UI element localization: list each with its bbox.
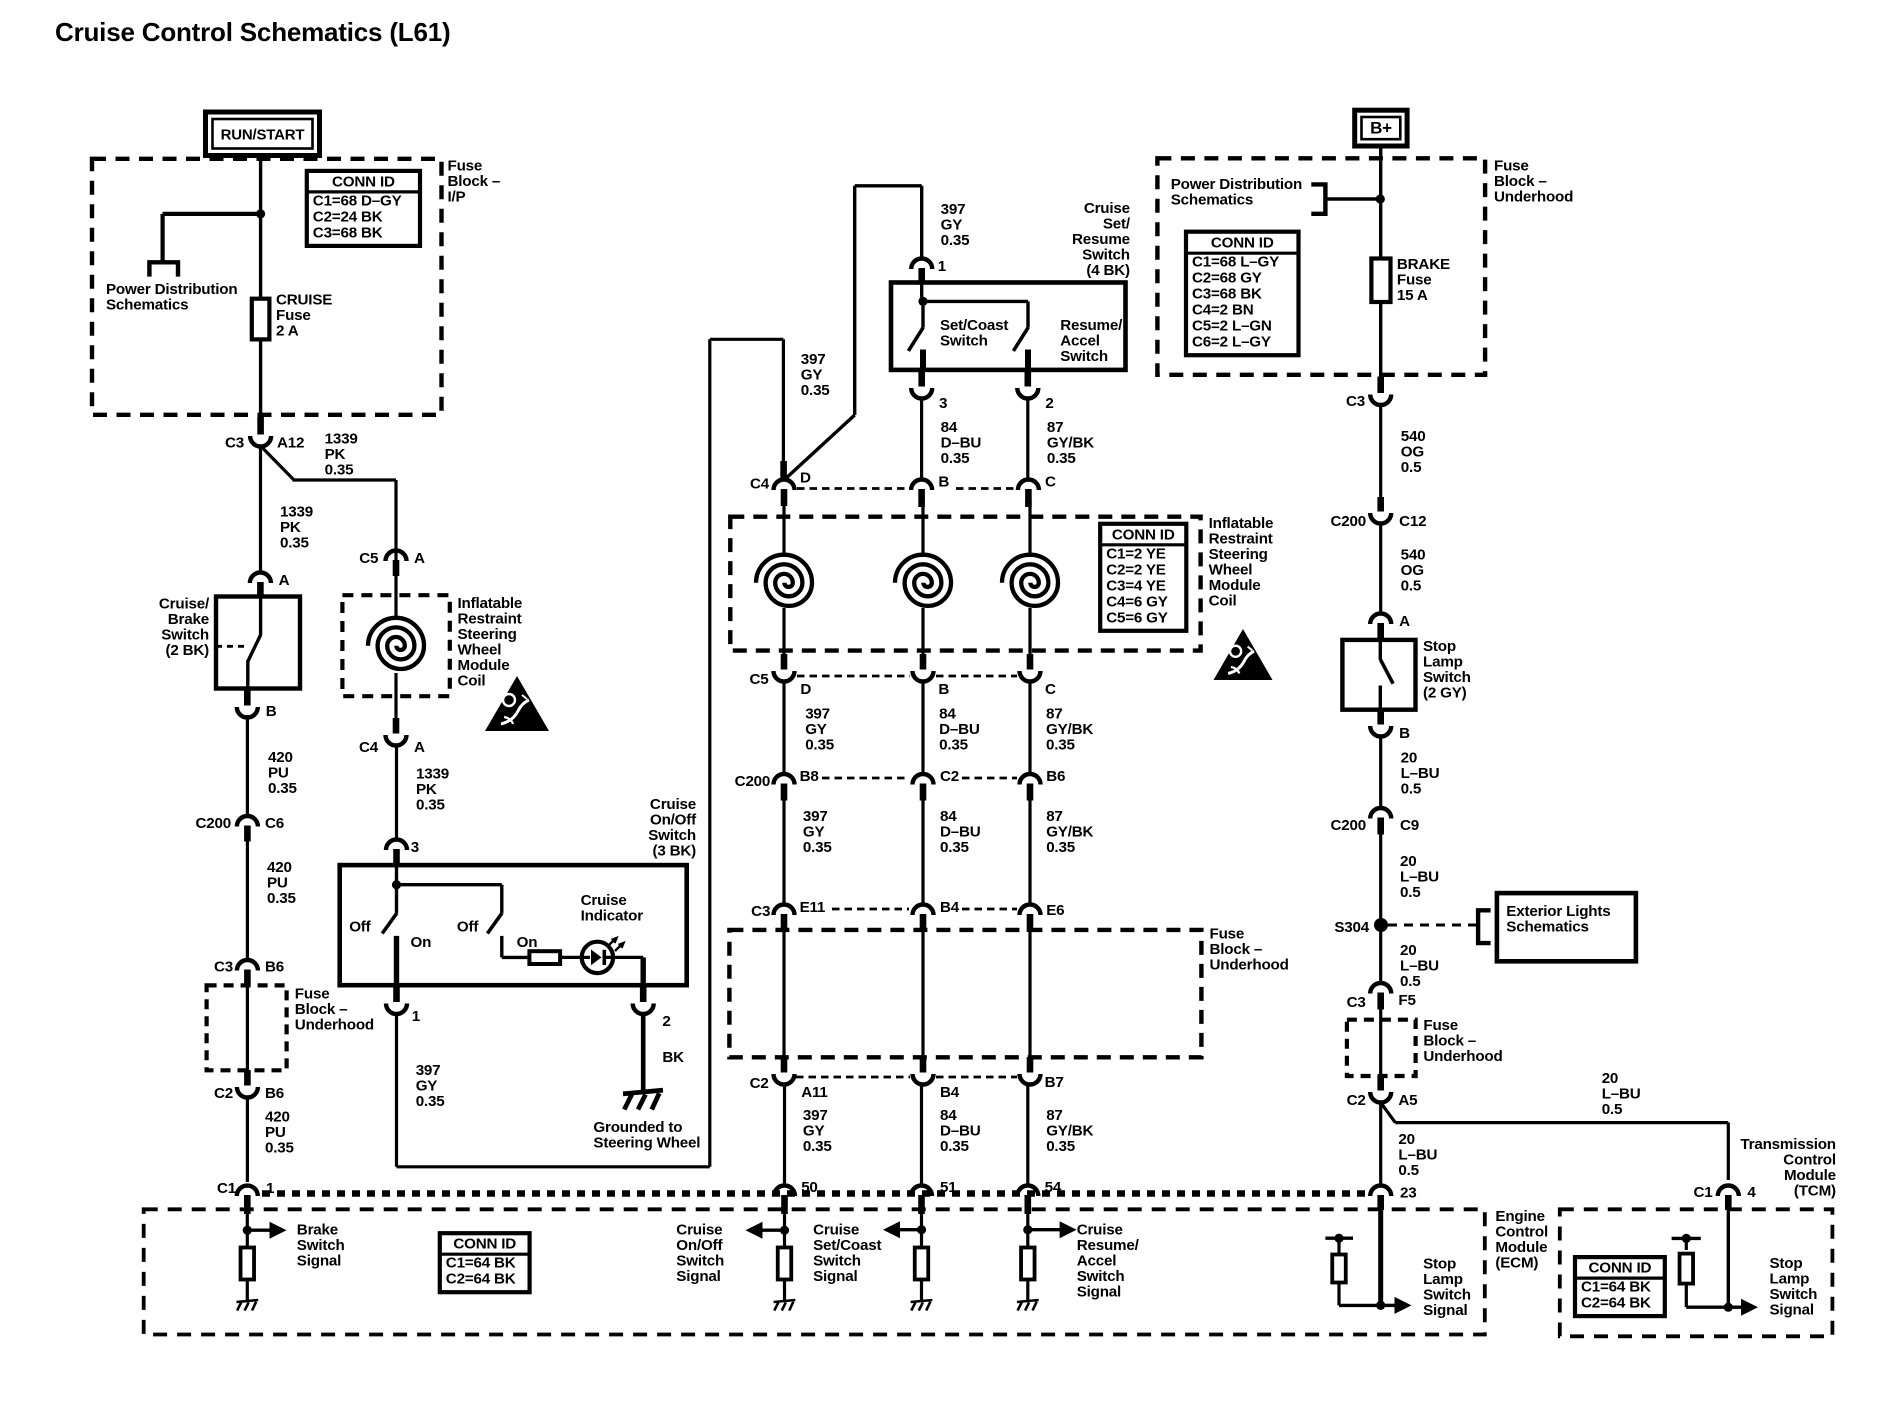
wire: C3 to C200/C12 540 OG (1379, 403, 1382, 505)
svg-text:C1=64 BK: C1=64 BK (446, 1255, 516, 1272)
svg-text:PK: PK (280, 519, 301, 536)
svg-text:Inflatable: Inflatable (458, 595, 523, 612)
connector pin 54 (1017, 1186, 1038, 1215)
svg-text:C5: C5 (359, 550, 379, 567)
svg-text:84: 84 (939, 706, 956, 723)
label C2 (C200 row) (940, 768, 959, 785)
svg-text:540: 540 (1401, 547, 1426, 564)
svg-text:Coil: Coil (458, 673, 486, 690)
svg-text:Resume/: Resume/ (1060, 317, 1123, 334)
svg-text:Module: Module (458, 657, 510, 674)
connector pin 1 (on/off out) (386, 987, 407, 1015)
svg-text:0.35: 0.35 (803, 1138, 833, 1155)
wire: coil3 to C5/C (1028, 608, 1031, 655)
label Exterior Lights Schematics (1506, 903, 1610, 936)
resistor (pin 54) (1021, 1248, 1035, 1280)
svg-text:0.35: 0.35 (416, 1093, 446, 1110)
svg-text:C2=68 GY: C2=68 GY (1192, 270, 1262, 287)
arrow cruise on/off signal (746, 1222, 785, 1239)
svg-text:C5: C5 (749, 671, 769, 688)
svg-text:3: 3 (411, 839, 419, 856)
wire: pin2 to C4/C 87 GY/BK (1026, 397, 1029, 480)
label 2 (on/off pin) (662, 1013, 670, 1030)
svg-text:397: 397 (416, 1062, 441, 1079)
svg-text:E11: E11 (800, 899, 826, 916)
svg-text:Cruise Control Schematics (L61: Cruise Control Schematics (L61) (55, 17, 450, 47)
svg-text:20: 20 (1398, 1131, 1415, 1148)
wire: resistor to ground (pin51) (920, 1280, 923, 1301)
svg-text:0.35: 0.35 (416, 797, 446, 814)
label 1 (C1 pin) (266, 1180, 275, 1197)
connector C1/1 (ECM brake input) (237, 1186, 258, 1214)
label Grounded to Steering Wheel (593, 1119, 700, 1152)
svg-text:Switch: Switch (813, 1253, 861, 1270)
svg-text:Wheel: Wheel (1209, 562, 1253, 579)
svg-text:GY: GY (801, 367, 823, 384)
wire: resistor to LED (560, 956, 590, 959)
fuse CRUISE 2A (252, 299, 270, 340)
svg-text:Accel: Accel (1060, 333, 1100, 350)
node: junction dot on B+ feed (1376, 194, 1385, 203)
fuse block underhood small dashed box (right) (1347, 1020, 1416, 1076)
label C3 (F5 row) (1347, 994, 1366, 1011)
svg-text:BK: BK (662, 1049, 684, 1066)
svg-text:1339: 1339 (416, 766, 449, 783)
svg-text:CONN ID: CONN ID (453, 1236, 516, 1253)
svg-text:Cruise: Cruise (1077, 1222, 1123, 1239)
arrow cruise resume/accel signal (1028, 1221, 1077, 1238)
svg-text:Steering: Steering (1209, 546, 1268, 563)
svg-text:Switch: Switch (648, 827, 696, 844)
pull-up bar (pin 23) (1325, 1234, 1353, 1255)
svg-text:B: B (938, 681, 949, 698)
svg-text:Resume/: Resume/ (1077, 1237, 1140, 1254)
connector C5/C (1020, 654, 1041, 682)
svg-text:(2 GY): (2 GY) (1423, 685, 1467, 702)
svg-text:On: On (411, 934, 432, 951)
svg-text:397: 397 (803, 808, 828, 825)
svg-text:B4: B4 (940, 1084, 960, 1101)
svg-text:C: C (1045, 681, 1056, 698)
connector pin 1 (set/coast) (911, 259, 932, 285)
label 420 PU 0.35 (upper) (268, 749, 298, 797)
label C5 (A branch) (359, 550, 379, 567)
svg-text:Off: Off (457, 919, 479, 936)
off-page reference bracket (exterior lights) (1478, 910, 1491, 943)
svg-text:0.35: 0.35 (941, 232, 971, 249)
label 540 OG 0.5 (upper) (1401, 428, 1426, 476)
svg-text:Signal: Signal (1077, 1284, 1121, 1301)
svg-text:C1: C1 (1693, 1184, 1713, 1201)
arrow brake switch signal (247, 1222, 286, 1239)
svg-text:54: 54 (1045, 1179, 1062, 1196)
svg-text:Lamp: Lamp (1770, 1271, 1810, 1288)
label B7 (1045, 1074, 1064, 1091)
svg-text:1: 1 (938, 258, 947, 275)
svg-text:Stop: Stop (1770, 1255, 1803, 1272)
off-page reference bracket (right) (1311, 184, 1380, 213)
svg-text:Switch: Switch (1077, 1268, 1125, 1285)
svg-text:B6: B6 (1046, 768, 1065, 785)
label On (pole1) (411, 934, 432, 951)
label A (stop lamp pin) (1399, 613, 1410, 630)
svg-text:A5: A5 (1398, 1092, 1418, 1109)
connector C2/A11 (774, 1057, 795, 1085)
svg-text:CONN ID: CONN ID (1211, 235, 1274, 252)
svg-text:Underhood: Underhood (1423, 1048, 1502, 1065)
off-page reference bracket (Power Distribution) (149, 262, 178, 276)
label B (brake switch pin) (266, 703, 277, 720)
svg-text:Resume: Resume (1072, 231, 1130, 248)
label A (C4 branch) (414, 739, 425, 756)
label B6 (C3 row) (265, 959, 284, 976)
svg-text:0.35: 0.35 (1046, 839, 1076, 856)
svg-text:51: 51 (940, 1179, 957, 1196)
svg-text:C12: C12 (1399, 513, 1426, 530)
svg-text:D–BU: D–BU (941, 435, 982, 452)
wire: pin 50 inside ECM (783, 1205, 786, 1248)
connector B (stop lamp out) (1370, 709, 1391, 737)
label F5 (1398, 992, 1416, 1009)
svg-text:OG: OG (1401, 444, 1424, 461)
wire: B to C200/C6 420 PU (246, 715, 249, 816)
svg-text:0.35: 0.35 (1046, 1138, 1076, 1155)
label Power Distribution Schematics (106, 281, 237, 314)
svg-text:Lamp: Lamp (1423, 1271, 1463, 1288)
svg-text:Lamp: Lamp (1423, 654, 1463, 671)
wire: C200/C2 to C3/B4 (921, 797, 924, 905)
label A11 (801, 1084, 828, 1101)
label 84 D-BU 0.35 (upper) (941, 419, 982, 467)
label C3 (E11 row) (751, 903, 770, 920)
wire: B4 to ECM pin 51 (920, 1083, 923, 1186)
wire: branch 20 L-BU to TCM (1381, 1103, 1728, 1180)
label C1 (TCM) (1693, 1184, 1713, 1201)
svg-text:E6: E6 (1046, 902, 1064, 919)
svg-text:C2=64 BK: C2=64 BK (446, 1271, 516, 1288)
svg-text:Module: Module (1209, 577, 1261, 594)
connector line C200 (dashed) (822, 777, 1017, 780)
svg-text:PU: PU (265, 1124, 286, 1141)
svg-text:C3: C3 (214, 959, 233, 976)
label C200 (C9 row) (1330, 817, 1366, 834)
svg-text:Switch: Switch (1423, 669, 1471, 686)
wire: E11 through underhood box (782, 928, 785, 1058)
svg-text:B7: B7 (1045, 1074, 1064, 1091)
coil 2 (84 D-BU) (895, 555, 951, 606)
connector C5/D (774, 654, 795, 682)
svg-text:Cruise: Cruise (676, 1222, 722, 1239)
svg-text:C2=24 BK: C2=24 BK (313, 208, 383, 225)
svg-text:15 A: 15 A (1397, 287, 1428, 304)
label 397 GY 0.35 (below on/off) (416, 1062, 446, 1110)
svg-text:0.5: 0.5 (1400, 884, 1421, 901)
svg-text:0.35: 0.35 (939, 737, 969, 754)
svg-text:0.35: 0.35 (940, 1138, 970, 1155)
label Cruise Set/Coast Switch Signal (813, 1222, 881, 1286)
inflatable restraint coil dashed box (left) (342, 595, 449, 696)
svg-text:0.35: 0.35 (1047, 450, 1077, 467)
svg-text:A: A (279, 572, 290, 589)
svg-text:(4 BK): (4 BK) (1086, 262, 1130, 279)
svg-text:CONN ID: CONN ID (1112, 526, 1175, 543)
svg-text:PK: PK (325, 446, 346, 463)
svg-text:0.35: 0.35 (267, 890, 297, 907)
label A12 (277, 435, 304, 452)
wire: C4/B into coil box (921, 500, 924, 557)
wire: through right underhood box (1379, 1006, 1382, 1076)
label B (C5 row) (938, 681, 949, 698)
label Off (pole1) (349, 919, 371, 936)
wire: pin 54 inside ECM (1026, 1205, 1029, 1248)
connector A (cruise brake switch) (250, 573, 271, 599)
connector line C3 (dashed) (832, 908, 1017, 911)
connector C2/B6 (237, 1070, 258, 1098)
svg-text:D–BU: D–BU (939, 721, 980, 738)
svg-text:PU: PU (267, 875, 288, 892)
svg-text:Fuse: Fuse (1494, 158, 1529, 175)
resistor (cruise indicator) (529, 951, 560, 964)
wire: resistor to output line (pin23) (1339, 1283, 1381, 1306)
svg-text:Brake: Brake (297, 1222, 338, 1239)
svg-text:0.5: 0.5 (1398, 1162, 1419, 1179)
label E6 (1046, 902, 1064, 919)
svg-text:D: D (800, 681, 811, 698)
svg-text:87: 87 (1046, 1107, 1063, 1124)
connector C200/C2 (913, 774, 934, 801)
svg-text:540: 540 (1401, 428, 1426, 445)
label 87 GY/BK 0.35 (mid) (1046, 808, 1093, 856)
svg-text:Indicator: Indicator (581, 908, 644, 925)
svg-text:C1=68 L–GY: C1=68 L–GY (1192, 254, 1279, 271)
wire: coil1 to C5/D (782, 608, 785, 655)
switch set/coast (908, 301, 923, 370)
arrow cruise set/coast signal (883, 1221, 922, 1238)
connector pin 3 (on/off switch) (386, 840, 407, 866)
wire: coil2 to C5/B (921, 608, 924, 655)
connector C3/E11 (774, 905, 795, 932)
connector C3 (right) (1370, 377, 1391, 406)
label C200 (B8 row) (735, 773, 771, 790)
connector C200/C6 (237, 816, 258, 842)
node: junction dot pin23 output (1376, 1301, 1385, 1310)
svg-text:Coil: Coil (1209, 593, 1237, 610)
label Inflatable Restraint Steering Wheel Module Coil (left) (458, 595, 523, 690)
connector C2/B4 (913, 1057, 934, 1085)
wire: C4/D into coil box (782, 504, 785, 557)
connector C4/C (1018, 480, 1039, 508)
svg-text:Underhood: Underhood (1210, 957, 1289, 974)
svg-text:C200: C200 (1330, 817, 1366, 834)
wire: C4/A to on/off pin3 1339 PK (395, 744, 398, 840)
connector C1/4 (TCM) (1718, 1186, 1739, 1211)
connector pin 23 (1370, 1186, 1391, 1211)
svg-text:I/P: I/P (448, 189, 466, 206)
svg-text:1: 1 (412, 1008, 421, 1025)
svg-text:397: 397 (941, 201, 966, 218)
wire: pin3 to C4/B 84 D-BU (920, 397, 923, 480)
svg-text:20: 20 (1400, 942, 1417, 959)
svg-text:397: 397 (803, 1107, 828, 1124)
svg-text:Engine: Engine (1495, 1208, 1544, 1225)
svg-text:C4: C4 (750, 476, 770, 493)
svg-text:1339: 1339 (325, 431, 358, 448)
label 1339 PK 0.35 (upper) (325, 431, 358, 479)
svg-text:20: 20 (1400, 853, 1417, 870)
label 50 (801, 1179, 818, 1196)
svg-text:Steering: Steering (458, 626, 517, 643)
svg-text:GY/BK: GY/BK (1047, 435, 1094, 452)
svg-text:C2: C2 (1347, 1092, 1366, 1109)
switch stop lamp (1380, 640, 1393, 710)
svg-text:0.35: 0.35 (803, 839, 833, 856)
svg-text:RUN/START: RUN/START (221, 127, 305, 144)
svg-text:C2=2 YE: C2=2 YE (1106, 561, 1166, 578)
svg-text:C200: C200 (735, 773, 771, 790)
label 3 (on/off pin) (411, 839, 419, 856)
LED cruise indicator (582, 938, 624, 973)
svg-text:Switch: Switch (161, 627, 209, 644)
switch pole 1 (on/off) (382, 885, 397, 934)
svg-text:0.35: 0.35 (265, 1140, 295, 1157)
svg-text:84: 84 (940, 808, 957, 825)
wire: pin C1/4 inside TCM (1727, 1205, 1730, 1307)
ground (pin 51) (911, 1300, 933, 1311)
label B6 (C2 row) (265, 1085, 284, 1102)
label 20 L-BU 0.5 (2) (1400, 853, 1439, 901)
svg-text:Power Distribution: Power Distribution (106, 281, 237, 298)
svg-text:0.5: 0.5 (1401, 781, 1422, 798)
warning triangle (left) (485, 676, 549, 731)
wire: C5/A branch down to coil (394, 551, 397, 561)
label 397 GY 0.35 (below C5) (805, 706, 835, 754)
wire: pin C1/1 inside ECM (246, 1205, 249, 1248)
svg-text:Cruise: Cruise (581, 892, 627, 909)
wire: B4 through underhood box (921, 928, 924, 1058)
label 84 D-BU 0.35 (mid) (940, 808, 981, 856)
svg-text:Fuse: Fuse (1210, 926, 1245, 943)
label 23 (1400, 1185, 1417, 1202)
svg-text:Fuse: Fuse (276, 307, 311, 324)
label 4 (TCM pin) (1747, 1184, 1756, 1201)
connector C200/B8 (774, 774, 795, 801)
svg-text:4: 4 (1747, 1184, 1756, 1201)
svg-text:0.35: 0.35 (268, 780, 298, 797)
wire: link to resume/accel pole (923, 301, 1028, 327)
connector line C2 (dashed) (796, 1076, 1017, 1079)
svg-text:Switch: Switch (676, 1253, 724, 1270)
svg-text:Schematics: Schematics (1506, 919, 1588, 936)
svg-text:C2: C2 (940, 768, 959, 785)
label Fuse Block - Underhood (right) (1423, 1017, 1502, 1065)
label Transmission Control Module (TCM) (1740, 1136, 1836, 1200)
label 1 (on/off pin) (412, 1008, 421, 1025)
wire: A11 to ECM pin 50 (783, 1083, 786, 1186)
label Cruise Indicator (581, 892, 644, 925)
wire: C4/C into coil box (1028, 500, 1031, 557)
wire: pole1 lower contact (394, 936, 399, 985)
svg-text:Stop: Stop (1423, 638, 1456, 655)
svg-text:20: 20 (1602, 1070, 1619, 1087)
dotted harness line into ECM (262, 1190, 1368, 1196)
svg-text:420: 420 (268, 749, 293, 766)
connector pin 3 (set/coast out) (911, 372, 932, 399)
svg-text:Power Distribution: Power Distribution (1171, 176, 1302, 193)
dashed reference to exterior lights (1388, 924, 1478, 927)
label 20 L-BU 0.5 (TCM branch) (1602, 1070, 1641, 1118)
svg-text:Module: Module (1784, 1167, 1836, 1184)
svg-text:Steering Wheel: Steering Wheel (593, 1135, 700, 1152)
wire: S304 to C3/F5 (1379, 925, 1382, 984)
svg-text:Set/Coast: Set/Coast (813, 1237, 881, 1254)
svg-text:Schematics: Schematics (1171, 192, 1253, 209)
svg-text:Set/Coast: Set/Coast (940, 317, 1008, 334)
connector C3/B4 (913, 905, 934, 932)
svg-text:2 A: 2 A (276, 323, 299, 340)
wire: through left underhood box (246, 984, 249, 1070)
svg-text:C2: C2 (214, 1085, 233, 1102)
fuse block underhood dashed box (top right) (1157, 158, 1485, 374)
svg-text:Fuse: Fuse (1397, 272, 1432, 289)
svg-text:Set/: Set/ (1103, 216, 1131, 233)
label C9 (1400, 817, 1419, 834)
label Cruise On/Off Switch Signal (676, 1222, 724, 1286)
svg-text:On: On (517, 934, 538, 951)
svg-text:On/Off: On/Off (676, 1237, 723, 1254)
label C (C5 row) (1045, 681, 1056, 698)
label Stop Lamp Switch (2 GY) (1423, 638, 1471, 702)
connector B (brake switch out) (237, 690, 258, 717)
node: junction dot at branch (256, 209, 265, 218)
resistor (pin 50) (778, 1248, 792, 1280)
power box B+ (1355, 110, 1407, 146)
svg-text:Control: Control (1495, 1224, 1548, 1241)
svg-text:S304: S304 (1334, 919, 1369, 936)
svg-text:Control: Control (1783, 1152, 1836, 1169)
label C3 (right) (1346, 393, 1365, 410)
connector C4/B (911, 480, 932, 508)
svg-text:C3: C3 (1346, 393, 1365, 410)
svg-text:GY: GY (805, 721, 827, 738)
svg-text:0.35: 0.35 (325, 462, 355, 479)
svg-text:A: A (414, 550, 425, 567)
label E11 (800, 899, 826, 916)
label Stop Lamp Switch Signal (TCM) (1770, 1255, 1818, 1319)
label 420 PU 0.35 (middle) (267, 859, 297, 907)
svg-text:Fuse: Fuse (1423, 1017, 1458, 1034)
svg-text:L–BU: L–BU (1400, 869, 1439, 886)
label C6 (265, 815, 284, 832)
svg-text:F5: F5 (1398, 992, 1416, 1009)
label 3 (set/coast pin) (939, 395, 947, 412)
connector C4/D (774, 461, 795, 506)
label C3 (A12 row) (225, 435, 244, 452)
svg-text:Signal: Signal (676, 1268, 720, 1285)
svg-text:C6=2 L–GY: C6=2 L–GY (1192, 334, 1271, 351)
wire: resistor to output line (TCM) (1686, 1284, 1728, 1308)
svg-text:C3: C3 (1347, 994, 1366, 1011)
svg-text:C1=2 YE: C1=2 YE (1106, 545, 1166, 562)
svg-text:C5=2 L–GN: C5=2 L–GN (1192, 318, 1272, 335)
coil 3 (87 GY/BK) (1002, 555, 1058, 606)
wire: C5/A to coil box (394, 574, 397, 618)
svg-text:B4: B4 (940, 899, 960, 916)
label B8 (800, 768, 819, 785)
svg-text:C200: C200 (195, 815, 231, 832)
node S304 splice (1374, 918, 1388, 932)
svg-text:Schematics: Schematics (106, 297, 188, 314)
svg-text:50: 50 (801, 1179, 818, 1196)
